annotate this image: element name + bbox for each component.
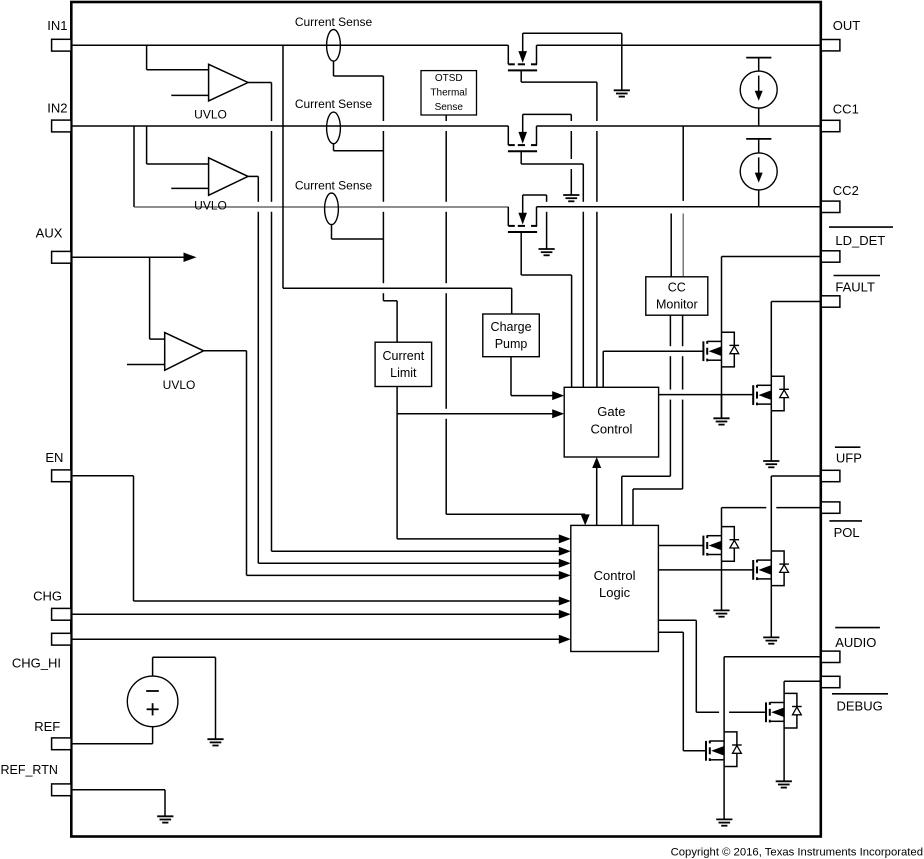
- current sense CS2: [295, 97, 373, 144]
- wire pass FET to CC2 pin: [537, 206, 822, 208]
- pin CC2: [821, 183, 859, 212]
- wire IN2 to UVLO2 input: [147, 126, 209, 164]
- wire CC2 bus to pass FET: [134, 206, 508, 208]
- wire CHG to Control Logic: [71, 610, 571, 619]
- svg-text:AUX: AUX: [36, 226, 63, 241]
- wire Q2 gate to Gate Control: [582, 164, 584, 387]
- ground Q7 source: [763, 586, 779, 644]
- svg-text:IN2: IN2: [47, 100, 67, 115]
- svg-text:Current Sense: Current Sense: [295, 97, 373, 111]
- pin POL: [821, 502, 862, 540]
- wire pass FET to OUT pin: [537, 44, 822, 46]
- svg-text:Control: Control: [594, 568, 636, 583]
- svg-text:Gate: Gate: [597, 404, 625, 419]
- pin CHG: [33, 589, 71, 621]
- wire IN1 bus to pass FET: [71, 44, 508, 46]
- ground Q9 source: [716, 767, 732, 826]
- wire IN1 branch to Charge Pump: [283, 45, 512, 314]
- wire pass FET to CC1 pin: [537, 125, 822, 127]
- ground REF_RTN: [157, 816, 173, 822]
- wire AUX with arrow: [71, 253, 196, 262]
- wire Q4 drain to LD_DET pin: [722, 257, 822, 333]
- pin IN2: [47, 100, 71, 131]
- wire UVLO1 output to Control Logic: [248, 83, 571, 556]
- block OTSD Thermal Sense: [421, 71, 477, 115]
- wire CC1 tap to CC Monitor: [682, 126, 684, 277]
- pin AUDIO: [821, 628, 880, 663]
- wire Current Limit output to Gate Control: [397, 387, 564, 539]
- svg-text:CHG_HI: CHG_HI: [12, 656, 61, 671]
- wire UVLO2 reference input: [171, 187, 208, 189]
- svg-text:Logic: Logic: [599, 585, 631, 600]
- wire Q1 gate to Gate Control: [596, 82, 598, 387]
- wire CC Monitor output 2 to Control Logic: [633, 315, 683, 525]
- wire UVLO3 reference input: [127, 364, 165, 366]
- ground Q1 body: [614, 33, 630, 96]
- svg-text:Control: Control: [590, 422, 632, 437]
- svg-text:Thermal: Thermal: [430, 87, 467, 98]
- wire source minus to ground: [153, 657, 216, 739]
- wire Control Logic to Q9 gate: [658, 632, 706, 751]
- svg-text:REF_RTN: REF_RTN: [0, 763, 57, 777]
- transistor Q7 UFP: [753, 551, 789, 586]
- wire CS3 output: [332, 225, 384, 239]
- block CC Monitor: [646, 277, 708, 315]
- svg-text:OUT: OUT: [833, 18, 861, 33]
- wire IN1 to UVLO1 input: [147, 45, 209, 69]
- svg-text:Copyright © 2016, Texas Instru: Copyright © 2016, Texas Instruments Inco…: [671, 846, 923, 858]
- current source I1 on CC1: [740, 58, 777, 126]
- wire Control Logic to Gate Control arrow: [592, 457, 601, 525]
- wire Control Logic to Q6 gate: [658, 545, 703, 547]
- svg-text:IN1: IN1: [47, 18, 67, 33]
- comparator UVLO2: [194, 158, 248, 213]
- svg-text:CC1: CC1: [833, 102, 859, 117]
- wire UVLO2 output to Control Logic: [248, 176, 571, 567]
- wire Control Logic to Q7 gate: [658, 569, 753, 571]
- svg-text:CC2: CC2: [833, 183, 859, 198]
- pin AUX: [36, 226, 71, 263]
- svg-text:CHG: CHG: [33, 589, 62, 604]
- block Current Limit: [375, 342, 432, 386]
- svg-text:Charge: Charge: [491, 320, 532, 334]
- current sense CS3: [295, 178, 373, 224]
- wire Q9 drain to AUDIO pin: [724, 657, 821, 732]
- pin UFP: [821, 447, 862, 481]
- wire UVLO3 output to Control Logic: [204, 351, 571, 580]
- transistor Q9 AUDIO: [706, 732, 742, 767]
- wire CC Monitor output 1 to Control Logic: [622, 315, 671, 525]
- pin IN1: [47, 18, 71, 51]
- svg-text:POL: POL: [834, 525, 860, 540]
- svg-text:Current Sense: Current Sense: [295, 178, 373, 192]
- pin LD_DET: [821, 227, 893, 262]
- transistor Q8 DEBUG: [766, 693, 802, 728]
- pin CC1: [821, 102, 859, 132]
- pin FAULT: [821, 276, 880, 308]
- svg-text:Current Sense: Current Sense: [295, 15, 373, 29]
- wire OTSD output to Control Logic: [446, 115, 590, 525]
- pin CHG_HI: [12, 633, 71, 670]
- wire REF pin to source plus: [71, 727, 152, 744]
- transistor Q1 pass FET IN1-OUT: [508, 33, 622, 82]
- wire IN2 bus to pass FET: [71, 125, 508, 127]
- svg-text:FAULT: FAULT: [835, 280, 875, 295]
- wire Q3 gate to Gate Control: [571, 275, 573, 387]
- wire REF_RTN pin to ground: [71, 790, 165, 817]
- wire Q5 drain to FAULT pin: [771, 302, 821, 377]
- pin EN: [45, 450, 71, 482]
- svg-text:AUDIO: AUDIO: [835, 635, 876, 650]
- wire CS1 output: [334, 61, 384, 76]
- wire sense bus to Current Limit: [383, 76, 397, 342]
- svg-text:REF: REF: [34, 719, 60, 734]
- ground Q3 body: [539, 195, 555, 255]
- svg-text:UVLO: UVLO: [194, 108, 227, 122]
- ground Q5 source: [763, 411, 779, 468]
- transistor Q3 pass FET IN2-CC2: [508, 195, 572, 275]
- pin DEBUG: [821, 676, 888, 713]
- svg-text:Limit: Limit: [390, 366, 417, 380]
- svg-text:Monitor: Monitor: [656, 298, 698, 312]
- ground Q4 source: [713, 367, 729, 425]
- wire Q7 drain to UFP pin: [771, 476, 821, 551]
- svg-text:Current: Current: [383, 349, 425, 363]
- pin OUT: [821, 18, 860, 51]
- wire UVLO1 reference input: [171, 94, 208, 96]
- wire Q6 drain to POL pin: [722, 508, 822, 527]
- block Charge Pump: [483, 314, 540, 357]
- wire IN2 branch down to CC2 bus: [133, 126, 135, 207]
- voltage reference source V1: [127, 676, 178, 727]
- ground Q2 body: [563, 114, 579, 201]
- wire Q8 drain to DEBUG pin: [784, 681, 821, 693]
- svg-text:LD_DET: LD_DET: [835, 233, 885, 248]
- transistor Q4 LD_DET: [703, 332, 739, 367]
- svg-text:OTSD: OTSD: [435, 73, 463, 84]
- wire CS2 output: [334, 144, 384, 151]
- block Gate Control: [564, 387, 658, 457]
- svg-text:DEBUG: DEBUG: [837, 699, 883, 714]
- pin REF_RTN: [0, 763, 71, 796]
- wire EN to Control Logic: [71, 476, 571, 606]
- ground Q8 source: [776, 728, 792, 788]
- svg-text:EN: EN: [45, 450, 63, 465]
- transistor Q5 FAULT: [753, 376, 789, 411]
- wire Gate Control to Q5 gate: [659, 394, 754, 396]
- wire Gate Control to ground node: [721, 395, 723, 419]
- svg-text:UVLO: UVLO: [194, 199, 227, 213]
- ground reference return: [207, 739, 223, 745]
- svg-text:UVLO: UVLO: [163, 378, 196, 392]
- chip boundary: [71, 2, 821, 837]
- svg-text:CC: CC: [668, 281, 686, 295]
- wire Control Logic to Q8 gate: [658, 620, 766, 712]
- wire CC2 tap to CC Monitor: [670, 214, 672, 277]
- current source I2 on CC2: [740, 139, 777, 207]
- svg-text:UFP: UFP: [836, 450, 862, 465]
- wire CHG_HI to Control Logic: [71, 635, 571, 644]
- block Control Logic: [571, 525, 659, 651]
- wire AUX branch to UVLO3 input: [150, 257, 165, 339]
- pin REF: [34, 719, 71, 750]
- comparator UVLO3: [163, 333, 204, 393]
- wire Gate Control to Q4 gate: [603, 351, 703, 387]
- transistor Q6 POL: [703, 527, 739, 562]
- wire Current Limit output to Control Logic: [397, 534, 571, 543]
- ground Q6 source: [713, 561, 729, 617]
- comparator UVLO1: [194, 64, 248, 121]
- wire Charge Pump output to Gate Control: [511, 357, 564, 400]
- svg-text:Sense: Sense: [435, 102, 464, 113]
- transistor Q2 pass FET IN2-CC1: [508, 114, 583, 164]
- current sense CS1: [295, 15, 373, 61]
- svg-text:Pump: Pump: [495, 337, 528, 351]
